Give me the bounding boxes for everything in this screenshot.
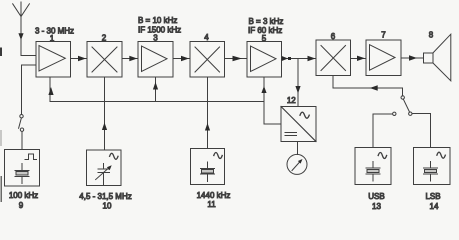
svg-text:14: 14 <box>430 202 439 211</box>
svg-text:13: 13 <box>372 202 381 211</box>
amplifier U5 <box>247 42 282 78</box>
wire crystal osc 11 to mixer 4 <box>205 77 210 149</box>
crystal calibrator U9 <box>5 150 40 187</box>
svg-text:4: 4 <box>204 33 209 42</box>
AGC arrow into amp 1 <box>48 78 53 102</box>
svg-text:IF 1500 kHz: IF 1500 kHz <box>138 26 181 35</box>
svg-text:5: 5 <box>262 34 267 43</box>
switch S1 (calibrator) <box>19 115 24 132</box>
svg-text:1: 1 <box>50 34 55 43</box>
scan artifact left edge <box>0 48 2 203</box>
amplifier U3 <box>138 42 173 78</box>
wire calibrator injection from amp1 to switch <box>22 65 37 115</box>
wire switch to oscillator 9 <box>21 131 23 149</box>
AGC arrow into amp 3 <box>153 77 158 102</box>
amplifier U7 <box>366 40 401 75</box>
svg-text:4,5 - 31,5 MHz: 4,5 - 31,5 MHz <box>79 192 131 201</box>
antenna <box>13 2 30 55</box>
wire antenna to amp 1 <box>21 54 36 56</box>
wire switch contact to oscillator 14 <box>412 114 431 148</box>
svg-text:8: 8 <box>429 31 434 40</box>
wire mixer4 to amp5 <box>225 56 248 61</box>
VFO U10 <box>87 150 121 185</box>
svg-text:6: 6 <box>331 32 336 41</box>
amplifier U1 <box>36 42 71 78</box>
svg-text:B = 3 kHz: B = 3 kHz <box>249 17 284 26</box>
svg-text:3: 3 <box>153 34 158 43</box>
wire mixer2 to amp3 <box>122 56 138 61</box>
wire junction down to detector 12 <box>295 59 300 107</box>
svg-text:IF 60 kHz: IF 60 kHz <box>248 26 282 35</box>
wire mixer6 to amp7 <box>351 56 367 61</box>
wire detector to meter <box>297 142 299 155</box>
mixer U2 <box>87 42 122 78</box>
wire switch contact to oscillator 13 <box>373 114 393 148</box>
crystal oscillator U14 (LSB) <box>414 148 451 185</box>
svg-text:3 - 30 MHz: 3 - 30 MHz <box>35 26 74 35</box>
svg-text:7: 7 <box>381 31 386 40</box>
svg-text:1440 kHz: 1440 kHz <box>197 191 231 200</box>
AGC line from detector 12 <box>50 102 281 124</box>
wire BFO switch to mixer 6 <box>333 76 403 96</box>
mixer U4 <box>190 42 225 78</box>
meter M1 <box>287 154 307 174</box>
svg-text:LSB: LSB <box>425 192 440 201</box>
wire amp7 to speaker <box>401 55 424 60</box>
wire amp5 to mixer6 with junction <box>282 56 317 61</box>
svg-text:USB: USB <box>368 192 384 201</box>
svg-text:11: 11 <box>207 200 216 209</box>
switch S2 (USB/LSB select) <box>393 96 412 116</box>
svg-text:10: 10 <box>103 202 112 211</box>
svg-text:9: 9 <box>19 201 24 210</box>
crystal oscillator U13 (USB) <box>355 148 391 185</box>
AGC arrow into amp 5 <box>261 77 266 102</box>
wire amp1 to mixer2 <box>71 56 88 61</box>
crystal oscillator U11 <box>191 149 225 185</box>
mixer U6 <box>316 40 351 75</box>
svg-text:B = 10 kHz: B = 10 kHz <box>138 16 177 25</box>
loudspeaker 8 <box>424 34 451 81</box>
svg-text:12: 12 <box>287 96 296 105</box>
wire VFO 10 to mixer 2 <box>102 77 107 150</box>
svg-text:100 kHz: 100 kHz <box>9 191 38 200</box>
wire amp3 to mixer4 <box>173 56 190 61</box>
detector U12 <box>281 107 316 142</box>
svg-text:2: 2 <box>102 34 107 43</box>
